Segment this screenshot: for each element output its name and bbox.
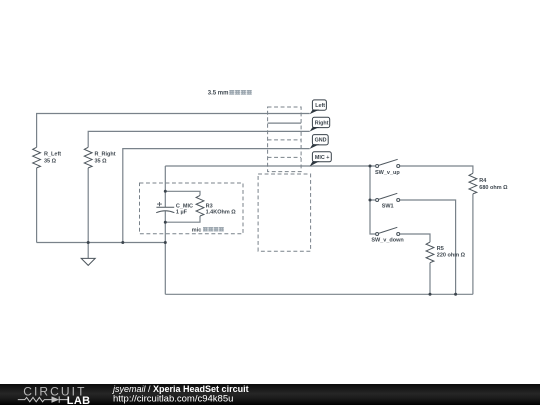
svg-text:http://circuitlab.com/c94k85u: http://circuitlab.com/c94k85u (113, 394, 233, 405)
svg-text:SW_v_up: SW_v_up (375, 170, 400, 176)
svg-text:LAB: LAB (67, 395, 91, 405)
svg-text:GND: GND (315, 138, 327, 144)
svg-text:SW1: SW1 (382, 204, 394, 210)
svg-text:R4: R4 (479, 178, 487, 184)
svg-text:R3: R3 (206, 204, 213, 210)
svg-text:R_Right: R_Right (95, 152, 116, 158)
svg-text:MIC +: MIC + (315, 155, 330, 161)
svg-text:Right: Right (315, 120, 329, 126)
svg-text:680 ohm Ω: 680 ohm Ω (479, 185, 508, 191)
svg-text:R5: R5 (437, 246, 444, 252)
svg-text:C_MIC: C_MIC (176, 204, 193, 210)
svg-text:Left: Left (315, 103, 325, 109)
svg-text:1 µF: 1 µF (176, 210, 188, 216)
svg-text:35 Ω: 35 Ω (44, 159, 57, 165)
svg-text:35 Ω: 35 Ω (95, 159, 108, 165)
svg-text:220 ohm Ω: 220 ohm Ω (437, 252, 466, 258)
svg-text:SW_v_down: SW_v_down (371, 238, 404, 244)
svg-text:jsyemail / Xperia HeadSet circ: jsyemail / Xperia HeadSet circuit (112, 384, 249, 394)
svg-text:mic: mic (192, 228, 201, 234)
svg-text:3.5 mm: 3.5 mm (208, 91, 229, 97)
svg-text:R_Left: R_Left (44, 152, 61, 158)
svg-text:1.4KOhm Ω: 1.4KOhm Ω (206, 210, 237, 216)
